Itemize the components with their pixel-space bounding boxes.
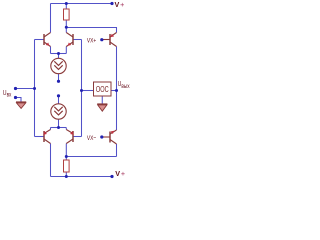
transistor TR1 (npn, top pair right) <box>66 33 73 47</box>
wire: TR1 collector up to node <box>65 28 67 33</box>
resistor R2 <box>64 160 70 172</box>
wire: output column T3 to T4 <box>116 47 118 131</box>
wire: bottom node from R2 to T4 <box>66 156 116 158</box>
node: output junction <box>115 89 118 92</box>
node: R1/TR1 collector junction <box>65 26 68 29</box>
node: VX+ terminal <box>100 38 103 41</box>
wire: TR2 collector down to node <box>65 144 67 157</box>
wire: I1 bottom stub to open node <box>58 74 60 81</box>
svg-text:VX+: VX+ <box>87 38 97 45</box>
wire: TR2 base to VX column <box>73 136 82 138</box>
svg-text:V+: V+ <box>115 169 125 178</box>
node: emitters bottom pair <box>57 126 60 129</box>
wire: T4 collector down to bottom node <box>116 144 118 157</box>
svg-text:V+: V+ <box>115 0 125 9</box>
wire: TL1 base <box>35 39 45 41</box>
node: V- terminal <box>110 175 113 178</box>
node: VX- terminal <box>100 135 103 138</box>
node: input junction <box>33 87 36 90</box>
node: rail/R2 junction <box>65 175 68 178</box>
wire: R1 top stem <box>65 4 67 10</box>
wire: input source low terminal to ground <box>16 98 22 103</box>
transistor TL2 (pnp, bottom-left) <box>44 130 51 144</box>
wire: bracket to current source I1 <box>58 54 60 59</box>
wire: emitter bracket top pair <box>51 53 67 55</box>
node: rail/R1 junction <box>65 2 68 5</box>
ground (input source) <box>16 102 26 108</box>
wire: input source to node <box>16 88 35 90</box>
node: I1 open terminal <box>57 80 60 83</box>
node: V+ terminal <box>110 2 113 5</box>
current source I2 <box>51 104 66 119</box>
junction dots <box>14 2 118 178</box>
wire: R2 top stem <box>65 157 67 161</box>
svg-text:VX−: VX− <box>87 135 97 142</box>
node: OOC input junction <box>80 89 83 92</box>
wire: TR1 base to VX column <box>73 39 82 41</box>
wire: V- bottom rail <box>51 176 113 178</box>
wire: TL2 base <box>35 136 45 138</box>
ground (OOC box) <box>97 104 107 111</box>
resistor R1 <box>64 9 70 20</box>
wire: TL1 collector to rail <box>50 4 52 33</box>
wire: OOC output <box>111 90 117 92</box>
node: I2 open terminal <box>57 94 60 97</box>
wire: R1 bottom stem <box>65 20 67 28</box>
wire: V+ top rail <box>51 3 113 5</box>
transistor T3 (pnp output, right top) <box>102 33 117 47</box>
svg-text:ООС: ООС <box>96 86 109 94</box>
wire: R2 bottom stem <box>65 172 67 177</box>
transistor T4 (npn output, right bottom) <box>102 130 117 144</box>
node: emitters top pair <box>57 52 60 55</box>
current source I1 <box>51 58 66 73</box>
wire: top node from R1 to T3 <box>66 28 116 33</box>
wire: OOC ground stem <box>101 96 103 104</box>
wire: VX column vertical <box>81 40 83 137</box>
node: R2/TR2 collector junction <box>65 155 68 158</box>
wire: TL2 collector to bottom rail <box>50 144 52 177</box>
node: input source + terminal <box>14 87 17 90</box>
wire: I2 bottom to bracket <box>58 119 60 127</box>
wire: TR2 emitter up to bracket <box>65 128 67 130</box>
wire: OOC input <box>82 90 94 92</box>
transistor TL1 (npn, top-left) <box>44 33 51 47</box>
wire: TL1 emitter down to bracket <box>50 47 52 54</box>
OOC feedback box <box>94 82 112 96</box>
node: input source - terminal <box>14 96 17 99</box>
wire: input node vertical <box>34 40 36 137</box>
wire: open node to current source I2 <box>58 96 60 104</box>
transistor TR2 (pnp, bottom pair right) <box>66 130 73 144</box>
wire: TR1 emitter down to bracket <box>65 47 67 54</box>
wire: TL2 emitter up to bracket <box>50 128 52 130</box>
wire: emitter bracket bottom pair <box>51 127 67 129</box>
